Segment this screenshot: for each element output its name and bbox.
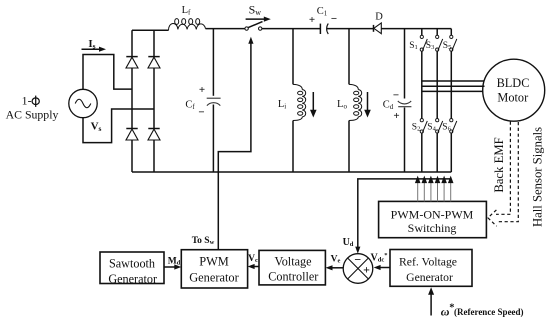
svg-text:1-: 1- — [22, 94, 32, 108]
svg-text:Switching: Switching — [408, 221, 457, 235]
svg-text:BLDC: BLDC — [497, 76, 530, 90]
svg-text:Generator: Generator — [189, 270, 239, 284]
svg-text:Voltage: Voltage — [274, 254, 311, 268]
svg-text:−: − — [198, 107, 204, 119]
svg-text:−: − — [354, 253, 361, 267]
svg-text:PWM: PWM — [199, 255, 229, 269]
svg-text:−: − — [393, 90, 399, 102]
svg-text:AC Supply: AC Supply — [6, 108, 59, 122]
svg-text:+: + — [393, 110, 399, 122]
svg-text:−: − — [331, 13, 337, 25]
svg-text:Controller: Controller — [268, 270, 318, 284]
svg-text:Motor: Motor — [497, 90, 528, 104]
svg-text:+: + — [199, 84, 205, 96]
svg-text:Ref. Voltage: Ref. Voltage — [399, 256, 457, 269]
svg-text:+: + — [309, 14, 315, 26]
svg-text:Back EMF: Back EMF — [492, 137, 506, 192]
svg-text:D: D — [375, 11, 383, 22]
svg-text:PWM-ON-PWM: PWM-ON-PWM — [391, 207, 474, 221]
svg-text:Generator: Generator — [406, 271, 453, 284]
svg-text:Hall Sensor Signals: Hall Sensor Signals — [530, 127, 544, 227]
svg-text:Generator: Generator — [108, 272, 157, 286]
svg-text:Sawtooth: Sawtooth — [109, 256, 155, 270]
svg-text:+: + — [363, 263, 370, 277]
svg-text:(Reference Speed): (Reference Speed) — [454, 307, 524, 317]
